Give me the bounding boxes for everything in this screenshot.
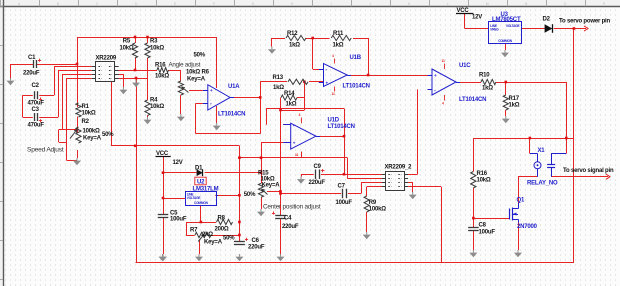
- svg-text:C3: C3: [32, 107, 40, 113]
- svg-text:R13: R13: [273, 75, 284, 81]
- svg-text:100uF: 100uF: [170, 217, 187, 223]
- svg-text:470uF: 470uF: [28, 101, 45, 107]
- svg-text:1kΩ: 1kΩ: [333, 43, 344, 49]
- svg-text:200Ω: 200Ω: [215, 226, 229, 232]
- svg-text:R1: R1: [82, 104, 90, 110]
- svg-text:11: 11: [442, 59, 445, 63]
- svg-text:10kΩ: 10kΩ: [477, 178, 491, 184]
- svg-text:LT1014CN: LT1014CN: [218, 112, 245, 118]
- svg-text:C4: C4: [284, 216, 292, 222]
- svg-text:100uF: 100uF: [479, 230, 496, 236]
- svg-text:C2: C2: [32, 83, 40, 89]
- svg-text:50%: 50%: [194, 53, 206, 59]
- svg-text:1kΩ: 1kΩ: [273, 85, 284, 91]
- svg-text:10kΩ: 10kΩ: [119, 46, 133, 52]
- svg-text:R10: R10: [479, 73, 490, 79]
- svg-text:R7: R7: [190, 227, 198, 233]
- svg-text:D1: D1: [195, 166, 203, 172]
- svg-text:Key=A: Key=A: [204, 239, 223, 245]
- svg-text:11: 11: [295, 153, 298, 157]
- svg-text:Key=A: Key=A: [187, 77, 206, 83]
- svg-text:100uF: 100uF: [336, 200, 353, 206]
- svg-text:M: M: [486, 2, 489, 6]
- svg-text:Key=A: Key=A: [83, 136, 102, 142]
- svg-text:50%: 50%: [244, 192, 256, 198]
- svg-text:To servo signal pin: To servo signal pin: [563, 168, 614, 174]
- svg-text:LT1014CN: LT1014CN: [328, 124, 355, 130]
- svg-text:VOLTAGE: VOLTAGE: [187, 196, 201, 200]
- svg-text:10kΩ: 10kΩ: [82, 111, 96, 117]
- svg-text:C7: C7: [338, 184, 346, 190]
- svg-text:COMMON: COMMON: [194, 201, 209, 205]
- svg-text:470uF: 470uF: [28, 123, 45, 129]
- svg-text:C1: C1: [28, 55, 36, 61]
- svg-text:2kΩ: 2kΩ: [202, 232, 213, 238]
- svg-text:R16: R16: [155, 63, 166, 69]
- svg-text:XR2209_2: XR2209_2: [385, 165, 413, 171]
- svg-text:100kΩ: 100kΩ: [369, 207, 387, 213]
- svg-text:220uF: 220uF: [23, 71, 40, 77]
- svg-text:XR2209: XR2209: [96, 56, 117, 62]
- svg-text:Speed Adjust: Speed Adjust: [27, 147, 64, 154]
- svg-text:1kΩ: 1kΩ: [509, 103, 520, 109]
- svg-text:C8: C8: [479, 223, 487, 229]
- svg-text:Angle adjust: Angle adjust: [169, 62, 201, 69]
- svg-text:U1B: U1B: [350, 55, 362, 61]
- svg-text:50%: 50%: [223, 236, 235, 242]
- svg-text:11: 11: [332, 92, 335, 96]
- svg-text:R17: R17: [509, 96, 520, 102]
- svg-text:R4: R4: [150, 98, 158, 104]
- svg-text:C6: C6: [252, 238, 260, 244]
- svg-text:C9: C9: [314, 164, 322, 170]
- svg-text:U2: U2: [197, 179, 205, 185]
- svg-text:R5: R5: [123, 39, 131, 45]
- svg-text:R14: R14: [284, 91, 295, 97]
- svg-text:Center position adjust: Center position adjust: [263, 204, 321, 211]
- svg-text:1kΩ: 1kΩ: [286, 102, 297, 108]
- svg-text:RELAY_NO: RELAY_NO: [527, 181, 558, 187]
- svg-text:U1D: U1D: [328, 118, 340, 124]
- svg-text:10kΩ: 10kΩ: [155, 74, 169, 80]
- svg-text:12V: 12V: [472, 15, 482, 21]
- svg-text:U1A: U1A: [228, 84, 240, 90]
- svg-text:12V: 12V: [173, 160, 183, 166]
- svg-text:R12: R12: [287, 31, 298, 37]
- svg-text:COMMON: COMMON: [498, 39, 513, 43]
- svg-text:To servo power pin: To servo power pin: [559, 19, 610, 25]
- svg-text:R2: R2: [82, 119, 90, 125]
- svg-text:2N7000: 2N7000: [517, 224, 538, 230]
- svg-text:220uF: 220uF: [282, 224, 299, 230]
- svg-text:R16: R16: [477, 171, 488, 177]
- svg-text:U1C: U1C: [459, 63, 471, 69]
- svg-text:LM7805CT: LM7805CT: [492, 17, 521, 23]
- svg-text:Q1: Q1: [517, 198, 525, 204]
- svg-text:100kΩ: 100kΩ: [83, 129, 101, 135]
- svg-text:50%: 50%: [102, 132, 114, 138]
- svg-text:X1: X1: [538, 148, 546, 154]
- svg-text:10kΩ: 10kΩ: [150, 46, 164, 52]
- svg-text:10kΩ R6: 10kΩ R6: [186, 70, 210, 76]
- svg-text:R3: R3: [150, 39, 158, 45]
- svg-text:220uF: 220uF: [248, 245, 265, 251]
- svg-text:10kΩ: 10kΩ: [150, 104, 164, 110]
- svg-text:VOLTAGE: VOLTAGE: [506, 24, 520, 28]
- svg-text:F: F: [213, 2, 215, 6]
- svg-text:Key=A: Key=A: [262, 182, 281, 188]
- svg-text:R8: R8: [218, 216, 226, 222]
- svg-text:LT1014CN: LT1014CN: [459, 97, 486, 103]
- svg-text:LT1014CN: LT1014CN: [343, 84, 370, 90]
- svg-text:D2: D2: [543, 17, 551, 23]
- svg-text:1kΩ: 1kΩ: [482, 86, 493, 92]
- svg-text:220uF: 220uF: [309, 180, 326, 186]
- svg-text:1kΩ: 1kΩ: [289, 43, 300, 49]
- svg-text:VREG: VREG: [490, 28, 499, 32]
- svg-text:R11: R11: [333, 31, 344, 37]
- svg-text:R9: R9: [369, 200, 377, 206]
